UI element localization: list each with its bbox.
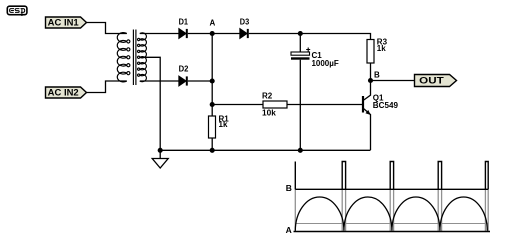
wire D3 to C1 junction and to R3: [249, 34, 371, 40]
resistor R3: [367, 38, 388, 64]
wire junction to R2: [212, 104, 263, 106]
wire D2 to node A vertical: [188, 80, 212, 82]
wire AC IN2 to transformer primary bottom: [87, 81, 127, 93]
svg-text:10k: 10k: [262, 108, 276, 117]
svg-text:D2: D2: [179, 64, 189, 73]
capacitor C1: [291, 34, 339, 151]
esp logo: [7, 6, 27, 16]
svg-text:AC IN1: AC IN1: [48, 17, 79, 27]
svg-text:B: B: [286, 183, 292, 193]
port AC IN2: [46, 87, 87, 98]
waveform gray baseline: [295, 223, 488, 225]
transformer T1 secondary winding: [138, 33, 147, 82]
node A: [210, 19, 216, 37]
waveform gray vertical gridlines: [295, 189, 488, 231]
waveform axis A: [294, 231, 491, 233]
svg-text:1k: 1k: [377, 44, 386, 53]
svg-text:OUT: OUT: [419, 76, 444, 86]
junction dot D2 row: [210, 78, 215, 83]
wire node A to D3: [212, 33, 240, 35]
wire node B to OUT: [371, 80, 415, 82]
wire D1 to node A: [188, 33, 212, 35]
wire R2 to Q1 base: [287, 104, 362, 106]
svg-text:1k: 1k: [219, 120, 228, 129]
svg-text:1000µF: 1000µF: [312, 59, 339, 68]
svg-text:B: B: [374, 71, 380, 80]
waveform trace A (rectified humps): [295, 197, 487, 231]
svg-text:R2: R2: [262, 92, 273, 101]
transformer core: [133, 30, 136, 86]
wire R1 to ground rail: [211, 138, 213, 150]
wire AC IN1 to transformer primary top: [87, 23, 127, 34]
junction dot R2 row: [210, 102, 215, 107]
svg-text:A: A: [286, 225, 292, 235]
junction dot C1 top: [298, 31, 303, 36]
port OUT: [415, 75, 457, 87]
svg-text:AC IN2: AC IN2: [48, 87, 79, 97]
resistor R1: [209, 115, 230, 139]
port AC IN1: [46, 17, 87, 28]
wire R3 to node B: [370, 63, 372, 81]
wire secondary bottom to D2: [140, 80, 179, 82]
ground symbol: [152, 150, 168, 168]
resistor R2: [262, 92, 287, 118]
junction dot rail C1: [298, 148, 303, 153]
svg-text:BC549: BC549: [373, 101, 399, 110]
node B: [368, 71, 380, 84]
svg-text:A: A: [210, 19, 216, 28]
ground rail: [160, 149, 371, 151]
diode D1: [179, 18, 189, 38]
svg-text:D3: D3: [240, 18, 250, 27]
wire secondary top to D1: [140, 33, 179, 35]
transistor Q1: [363, 81, 399, 151]
diode D3: [240, 18, 250, 38]
vertical wire from node A down to R1: [211, 34, 213, 117]
svg-text:D1: D1: [179, 18, 189, 27]
wire secondary center tap to ground rail: [140, 57, 160, 150]
waveform trace B (pulses): [295, 162, 488, 190]
transformer T1 primary winding: [117, 33, 130, 82]
junction dot rail R1: [210, 148, 215, 153]
diode D2: [179, 64, 189, 85]
junction dot rail left: [158, 148, 163, 153]
